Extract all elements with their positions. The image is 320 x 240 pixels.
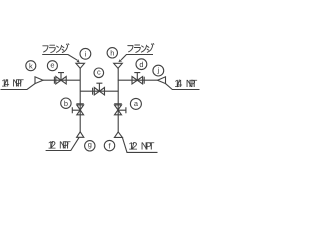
svg-text:1/2: 1/2 bbox=[48, 140, 57, 151]
svg-text:k: k bbox=[29, 61, 33, 70]
svg-text:1/2: 1/2 bbox=[128, 142, 137, 153]
svg-text:d: d bbox=[139, 60, 143, 69]
svg-text:1/4: 1/4 bbox=[174, 79, 182, 90]
svg-text:NPT: NPT bbox=[186, 79, 198, 90]
svg-text:e: e bbox=[50, 61, 54, 70]
svg-text:j: j bbox=[156, 66, 159, 75]
svg-text:c: c bbox=[97, 68, 101, 77]
svg-text:g: g bbox=[88, 140, 92, 149]
svg-text:h: h bbox=[110, 49, 114, 58]
svg-text:1/4: 1/4 bbox=[1, 79, 9, 90]
svg-text:NPT: NPT bbox=[12, 79, 24, 90]
svg-text:b: b bbox=[64, 99, 68, 108]
svg-text:NPT: NPT bbox=[59, 140, 71, 151]
svg-text:NPT: NPT bbox=[141, 142, 155, 153]
